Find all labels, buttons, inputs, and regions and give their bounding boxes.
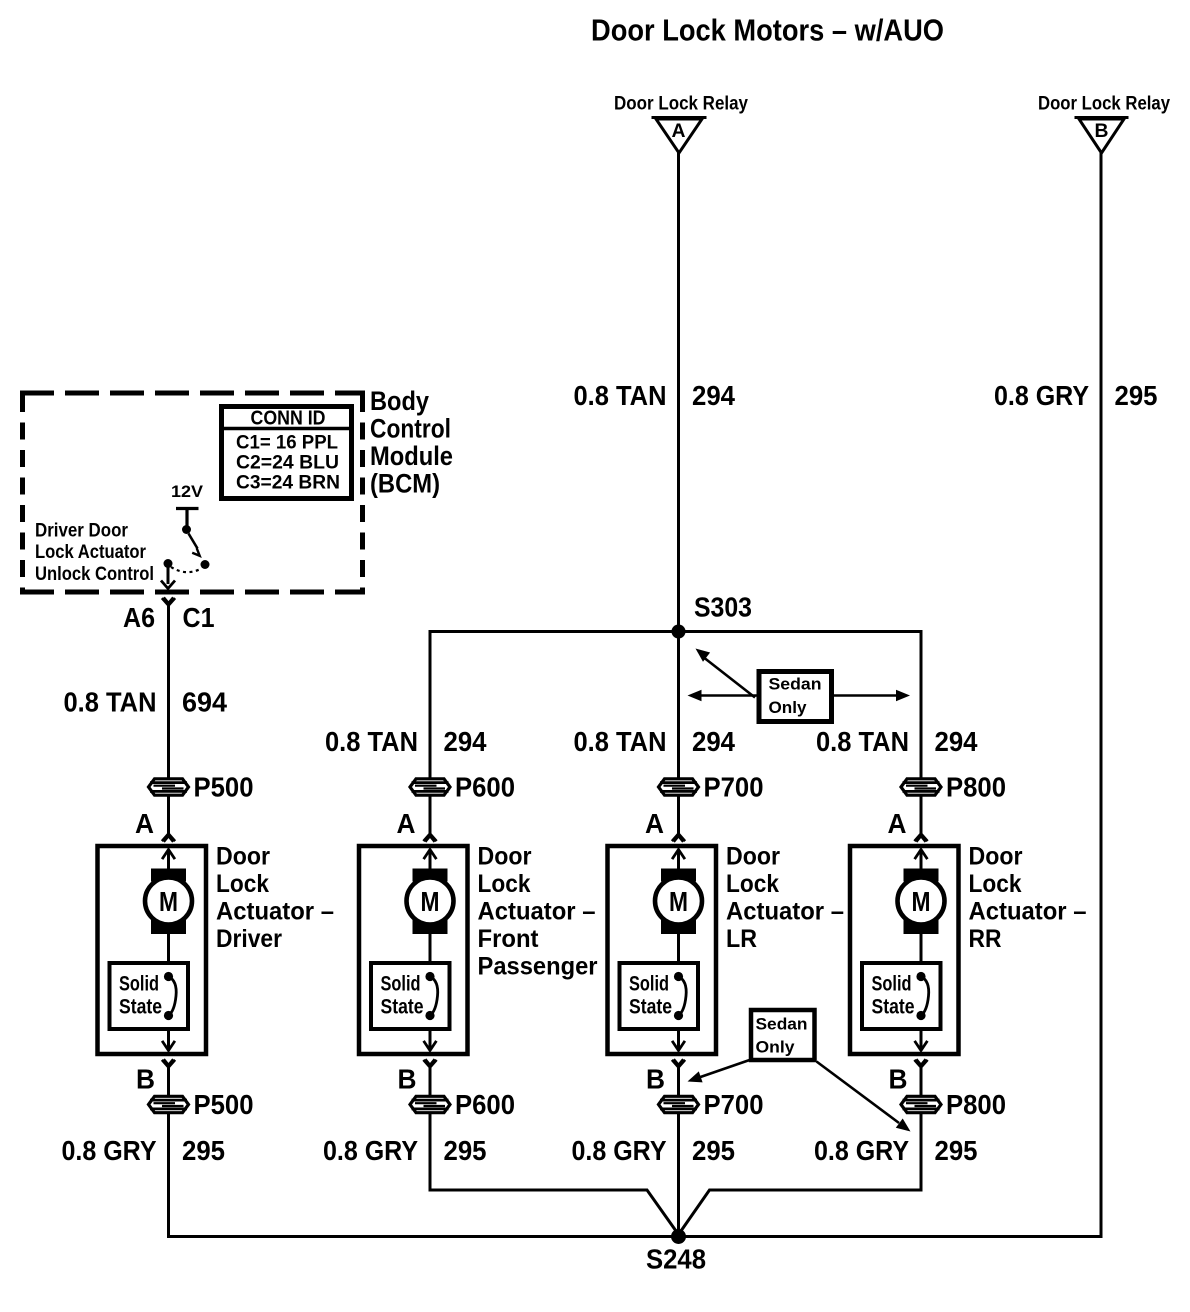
svg-text:B: B <box>889 1064 908 1095</box>
svg-text:State: State <box>872 996 915 1019</box>
svg-text:State: State <box>381 996 424 1019</box>
wire label 0.8 TAN 294 (relay A feed) <box>574 380 736 411</box>
solid state switch (Driver) <box>110 963 189 1029</box>
svg-text:0.8 TAN: 0.8 TAN <box>574 726 667 757</box>
internal wire motor to solid state (RR) <box>920 934 923 964</box>
svg-text:0.8 TAN: 0.8 TAN <box>325 726 418 757</box>
svg-text:CONN ID: CONN ID <box>251 408 326 430</box>
inline connector P700 (bottom, LR) <box>659 1089 764 1120</box>
arrow: sedan only to left (P700 branch) <box>688 690 757 702</box>
inline connector P800 (bottom, RR) <box>901 1089 1006 1120</box>
wire: S303 bus to P600 and P800 branches <box>429 630 923 779</box>
svg-text:B: B <box>136 1064 155 1095</box>
svg-text:LR: LR <box>726 925 757 953</box>
sedan only box (bottom) <box>751 1010 815 1060</box>
solid state switch (LR) <box>620 963 699 1029</box>
svg-text:Only: Only <box>769 698 808 717</box>
wire: P700 to actuator LR <box>677 797 680 834</box>
svg-text:294: 294 <box>692 726 735 757</box>
svg-text:295: 295 <box>692 1135 735 1166</box>
svg-text:Door Lock Relay: Door Lock Relay <box>614 94 748 115</box>
svg-text:Actuator –: Actuator – <box>969 898 1087 926</box>
svg-text:0.8 GRY: 0.8 GRY <box>994 380 1089 411</box>
wire: P800 to actuator RR <box>920 797 923 834</box>
svg-text:Actuator –: Actuator – <box>726 898 844 926</box>
svg-text:0.8 GRY: 0.8 GRY <box>572 1135 667 1166</box>
svg-text:M: M <box>159 886 178 917</box>
internal wire and arrow down (Front Passenger) <box>424 1029 437 1051</box>
svg-text:0.8 GRY: 0.8 GRY <box>323 1135 418 1166</box>
svg-text:295: 295 <box>1115 380 1158 411</box>
svg-text:A: A <box>645 808 664 839</box>
wire: LR column to S248 <box>677 1113 680 1237</box>
BCM dashed box <box>20 393 365 592</box>
svg-text:Sedan: Sedan <box>756 1015 808 1034</box>
svg-text:Passenger: Passenger <box>478 953 598 981</box>
svg-text:C1: C1 <box>183 602 215 633</box>
svg-text:Only: Only <box>756 1038 796 1057</box>
wire: relay B down to bottom bus <box>1100 152 1103 1238</box>
internal wire motor to solid state (LR) <box>677 934 680 964</box>
internal wire and arrow down (Driver) <box>162 1029 175 1051</box>
svg-text:Solid: Solid <box>119 973 159 996</box>
arrow: sedan only to right (P800 branch) <box>834 690 910 702</box>
wire: bottom bus to S248 <box>167 1235 1103 1238</box>
svg-text:P700: P700 <box>704 1089 764 1120</box>
svg-text:295: 295 <box>935 1135 978 1166</box>
wire label 0.8 TAN 294 (P700 branch) <box>574 726 736 757</box>
svg-text:294: 294 <box>692 380 735 411</box>
arrow: sedan only to P800 wire <box>817 1062 911 1132</box>
connector at pin A (Driver) <box>162 834 175 841</box>
door lock actuator box (Driver) <box>98 846 207 1054</box>
svg-text:Door: Door <box>726 843 780 871</box>
wire: pin B to P700 (LR) <box>677 1067 680 1096</box>
motor M (RR) <box>898 869 945 935</box>
svg-text:P800: P800 <box>946 772 1006 803</box>
svg-text:0.8 GRY: 0.8 GRY <box>814 1135 909 1166</box>
svg-text:Door: Door <box>478 843 532 871</box>
connector at pin A (Front Passenger) <box>423 834 436 841</box>
svg-text:C1= 16 PPL: C1= 16 PPL <box>236 433 338 454</box>
wire: front passenger column to bus <box>430 1113 679 1235</box>
inline connector P600 (bottom, Front Passenger) <box>410 1089 515 1120</box>
svg-text:Lock Actuator: Lock Actuator <box>35 542 147 563</box>
svg-text:Actuator –: Actuator – <box>478 898 596 926</box>
arrow: sedan only to P700 wire <box>688 1060 752 1083</box>
wire: RR column to bus <box>679 1113 922 1235</box>
svg-text:P500: P500 <box>194 1089 254 1120</box>
inline connector P700 (top, LR) <box>659 772 764 803</box>
connector at pin B (Front Passenger) <box>423 1060 436 1067</box>
svg-text:P600: P600 <box>455 1089 515 1120</box>
S248 splice node <box>646 1229 706 1275</box>
svg-text:Door Lock Relay: Door Lock Relay <box>1038 94 1170 115</box>
internal wire and arrow up (LR) <box>672 850 685 871</box>
CONN ID table <box>222 407 352 499</box>
svg-text:Solid: Solid <box>872 973 912 996</box>
svg-text:Sedan: Sedan <box>769 675 822 694</box>
svg-text:P700: P700 <box>704 772 764 803</box>
wire: pin B to P500 (Driver) <box>167 1067 170 1096</box>
connector at pin B (RR) <box>914 1060 927 1067</box>
svg-text:294: 294 <box>935 726 978 757</box>
wire: pin B to P600 (Front Passenger) <box>429 1067 432 1096</box>
svg-text:Door Lock Motors – w/AUO: Door Lock Motors – w/AUO <box>591 13 944 48</box>
svg-text:A: A <box>397 808 416 839</box>
svg-text:Control: Control <box>370 414 451 444</box>
connector at pin B (LR) <box>672 1060 685 1067</box>
wire: C1 to P500 <box>167 606 170 780</box>
wire: driver column to bottom bus <box>167 1113 170 1238</box>
wire: relay A down to S303 and P700 <box>677 152 680 779</box>
svg-text:(BCM): (BCM) <box>370 469 440 499</box>
svg-text:M: M <box>912 886 931 917</box>
internal wire motor to solid state (Driver) <box>167 934 170 964</box>
svg-text:A6: A6 <box>123 602 155 633</box>
internal wire and arrow down (LR) <box>672 1029 685 1051</box>
svg-text:Module: Module <box>370 441 453 471</box>
svg-text:0.8 TAN: 0.8 TAN <box>574 380 667 411</box>
svg-text:694: 694 <box>182 687 227 718</box>
svg-text:B: B <box>1095 121 1109 142</box>
wire label 0.8 TAN 294 (P800 branch) <box>816 726 978 757</box>
wire label 0.8 TAN 694 <box>64 687 228 718</box>
svg-text:Lock: Lock <box>478 870 531 898</box>
svg-text:A: A <box>888 808 907 839</box>
relay B triangle <box>1075 118 1129 154</box>
connector at pin B (Driver) <box>162 1060 175 1067</box>
svg-text:C3=24 BRN: C3=24 BRN <box>236 473 340 494</box>
solid state switch (Front Passenger) <box>371 963 450 1029</box>
svg-text:C2=24 BLU: C2=24 BLU <box>236 453 339 474</box>
connector A6 / C1 <box>123 597 215 633</box>
wire label 0.8 GRY 295 (Front Passenger) <box>323 1135 487 1166</box>
svg-text:Lock: Lock <box>726 870 779 898</box>
inline connector P800 (top, RR) <box>901 772 1006 803</box>
svg-text:0.8 TAN: 0.8 TAN <box>816 726 909 757</box>
svg-text:A: A <box>135 808 154 839</box>
svg-text:A: A <box>672 121 686 142</box>
svg-text:S248: S248 <box>646 1244 706 1275</box>
wire label 0.8 GRY 295 (LR) <box>572 1135 736 1166</box>
label: Body Control Module (BCM) <box>370 386 453 499</box>
sedan only box (at S303) <box>759 672 832 722</box>
svg-text:Driver Door: Driver Door <box>35 521 129 542</box>
S303 splice node <box>672 592 753 639</box>
wire: P600 to actuator Front Passenger <box>429 797 432 834</box>
connector at pin A (LR) <box>672 834 685 841</box>
wire label 0.8 GRY 295 (RR) <box>814 1135 978 1166</box>
svg-text:B: B <box>398 1064 417 1095</box>
door lock actuator box (RR) <box>850 846 959 1054</box>
actuator label (LR) <box>726 843 844 954</box>
internal wire motor to solid state (Front Passenger) <box>429 934 432 964</box>
wire label 0.8 TAN 294 (P600 branch) <box>325 726 487 757</box>
wire: BCM output arrow <box>161 567 175 589</box>
svg-text:Door: Door <box>969 843 1023 871</box>
motor M (Front Passenger) <box>407 869 454 935</box>
svg-text:Body: Body <box>370 386 429 416</box>
relay A triangle <box>652 118 707 154</box>
svg-text:State: State <box>119 996 162 1019</box>
label: Driver Door Lock Actuator Unlock Control <box>35 521 154 586</box>
internal wire and arrow down (RR) <box>915 1029 928 1051</box>
svg-text:12V: 12V <box>171 482 204 501</box>
svg-text:Unlock Control: Unlock Control <box>35 564 154 585</box>
wire label 0.8 GRY 295 (relay B) <box>994 380 1158 411</box>
svg-text:P800: P800 <box>946 1089 1006 1120</box>
motor M (LR) <box>655 869 702 935</box>
actuator label (Front Passenger) <box>478 843 598 981</box>
svg-text:0.8 TAN: 0.8 TAN <box>64 687 157 718</box>
actuator label (Driver) <box>216 843 334 954</box>
svg-text:RR: RR <box>969 925 1002 953</box>
svg-text:Front: Front <box>478 925 540 953</box>
svg-text:Solid: Solid <box>629 973 669 996</box>
svg-text:P500: P500 <box>194 772 254 803</box>
wire: P500 to actuator Driver <box>167 797 170 834</box>
switch: driver door lock actuator unlock control <box>164 525 210 572</box>
wire: pin B to P800 (RR) <box>920 1067 923 1096</box>
internal wire and arrow up (Driver) <box>162 850 175 871</box>
door lock actuator box (LR) <box>608 846 717 1054</box>
internal wire and arrow up (Front Passenger) <box>424 850 437 871</box>
inline connector P500 (top, Driver) <box>149 772 254 803</box>
svg-text:0.8 GRY: 0.8 GRY <box>62 1135 157 1166</box>
svg-text:Door: Door <box>216 843 270 871</box>
svg-text:State: State <box>629 996 672 1019</box>
svg-text:M: M <box>669 886 688 917</box>
12V supply <box>171 482 204 526</box>
svg-text:Lock: Lock <box>216 870 269 898</box>
inline connector P500 (bottom, Driver) <box>149 1089 254 1120</box>
svg-text:Lock: Lock <box>969 870 1022 898</box>
svg-text:295: 295 <box>444 1135 487 1166</box>
svg-text:Solid: Solid <box>381 973 421 996</box>
svg-text:P600: P600 <box>455 772 515 803</box>
door lock actuator box (Front Passenger) <box>359 846 468 1054</box>
internal wire and arrow up (RR) <box>915 850 928 871</box>
solid state switch (RR) <box>862 963 941 1029</box>
svg-text:294: 294 <box>444 726 487 757</box>
svg-text:Actuator –: Actuator – <box>216 898 334 926</box>
connector at pin A (RR) <box>914 834 927 841</box>
svg-text:295: 295 <box>182 1135 225 1166</box>
svg-text:S303: S303 <box>694 592 752 623</box>
inline connector P600 (top, Front Passenger) <box>410 772 515 803</box>
actuator label (RR) <box>969 843 1087 954</box>
motor M (Driver) <box>145 869 192 935</box>
svg-text:Driver: Driver <box>216 925 282 953</box>
svg-text:B: B <box>646 1064 665 1095</box>
wire label 0.8 GRY 295 (Driver) <box>62 1135 226 1166</box>
arrow: sedan only to S303 node <box>696 649 756 698</box>
svg-text:M: M <box>421 886 440 917</box>
